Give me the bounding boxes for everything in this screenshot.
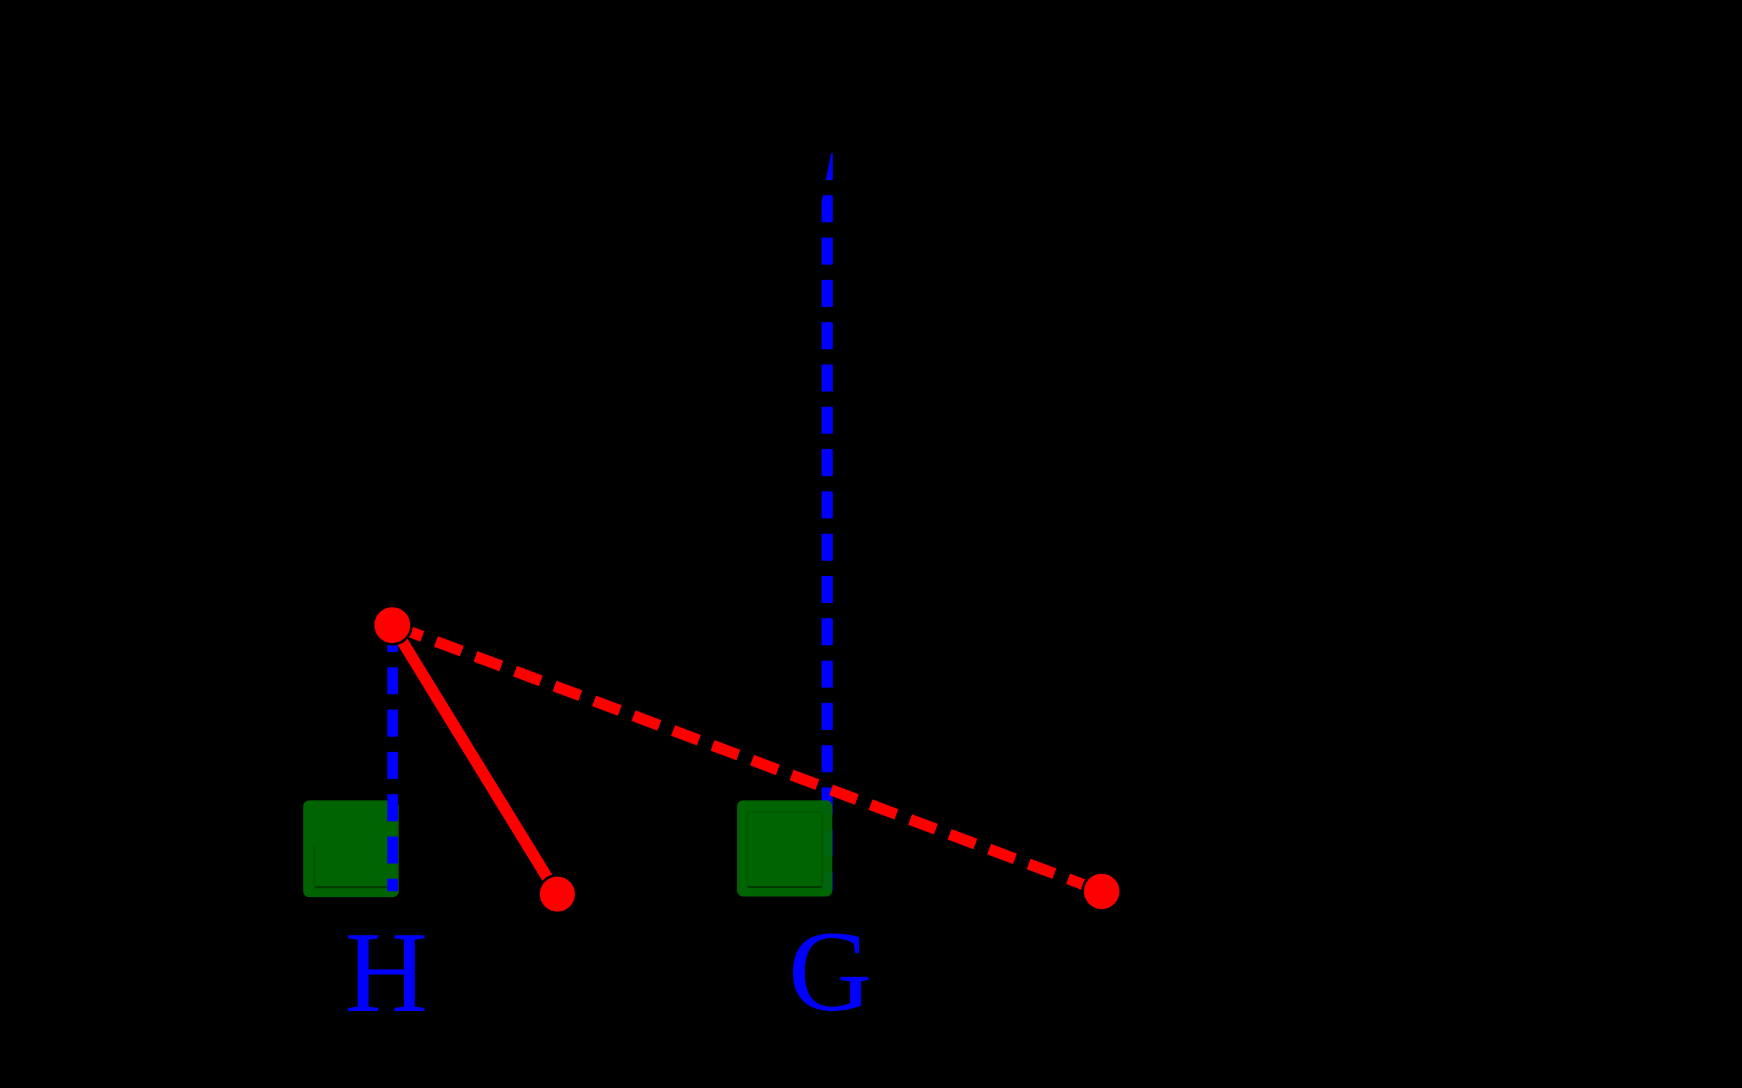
- label H: [345, 907, 428, 1039]
- inner shadow lines of block G: [748, 886, 823, 888]
- near bob dot: [539, 875, 577, 913]
- black wedge trimming the top of the guide line: [821, 150, 832, 208]
- pivot dot (red with black outline): [373, 606, 411, 644]
- far bob dot: [1083, 872, 1121, 910]
- label G: [788, 906, 872, 1039]
- long vertical blue dashed guide line above block G: [822, 153, 833, 891]
- red solid pendulum rod to near bob: [392, 625, 557, 894]
- inner shadow lines of block H: [315, 886, 389, 888]
- red dashed line to far bob: [392, 625, 1101, 891]
- block G (green square, drawn over the guide line): [737, 800, 832, 896]
- block H (green square): [303, 800, 399, 897]
- short vertical blue dashed plumb line from pivot to block H: [387, 625, 398, 891]
